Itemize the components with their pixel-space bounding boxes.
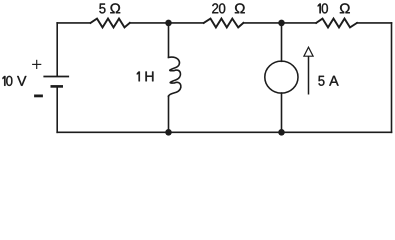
wire current-source branch top — [281, 23, 283, 61]
minus sign of battery — [34, 95, 43, 98]
resistor R 5ohm — [91, 19, 130, 28]
plus sign of battery — [32, 60, 41, 69]
node D (bottom right junction) — [278, 129, 285, 136]
label 1 H: "1" — [137, 72, 140, 82]
wire top-right segment — [357, 22, 392, 24]
label 10 ohm: "0" — [322, 3, 328, 13]
label 5 A: "5" — [319, 76, 325, 86]
inductor L 1H coil — [169, 57, 181, 96]
resistor R 10ohm — [316, 19, 357, 28]
label 10 V: "1" — [3, 76, 6, 86]
wire left below battery — [56, 87, 58, 132]
label 5 A: "A" — [329, 76, 338, 86]
label 20 ohm: "0" — [219, 3, 225, 13]
resistor R 20ohm — [204, 19, 244, 28]
wire left above battery — [56, 23, 58, 76]
label 10 V: "V" — [17, 76, 26, 86]
battery V1 bottom plate — [51, 85, 64, 88]
label 5 ohm: "5" — [99, 4, 105, 14]
label 10 ohm: "1" — [318, 4, 321, 14]
wire current-source branch bottom — [281, 93, 283, 132]
wire right side — [391, 23, 393, 132]
label 1 H: "H" — [146, 72, 154, 82]
current source arrow — [304, 47, 313, 94]
wire between R20 and R10 — [243, 22, 316, 24]
label 5 ohm: ohm symbol — [110, 3, 120, 13]
wire inductor branch top — [168, 23, 170, 58]
label 10 V: "0" — [6, 76, 12, 86]
wire between R5 and R20 — [130, 22, 204, 24]
current source I1 circle — [265, 61, 298, 93]
wire top-left segment — [57, 22, 90, 24]
node B (top right junction) — [278, 20, 285, 27]
wire bottom — [57, 131, 391, 133]
label 10 ohm: ohm symbol — [340, 3, 350, 13]
node A (top left junction) — [165, 20, 172, 27]
label 20 ohm: "2" — [212, 3, 218, 13]
node C (bottom left junction) — [165, 129, 172, 136]
battery V1 top plate — [43, 76, 69, 78]
label 20 ohm: ohm symbol — [235, 3, 245, 13]
wire inductor branch bottom — [168, 96, 170, 132]
